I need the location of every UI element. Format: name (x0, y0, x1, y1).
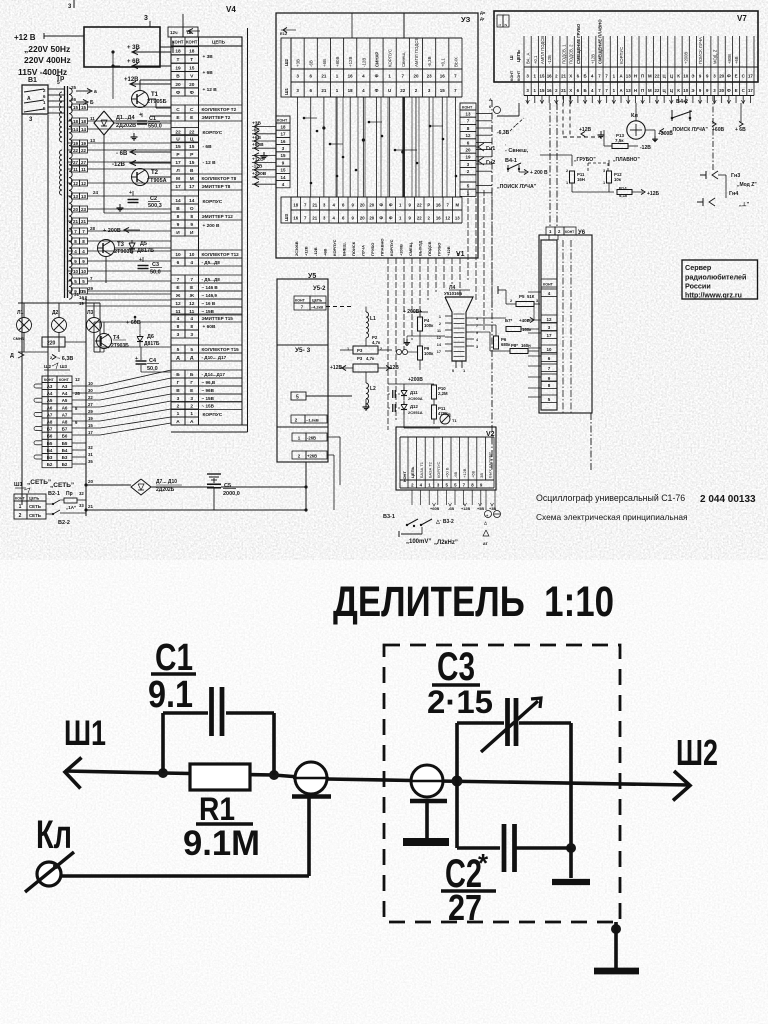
svg-text:ПОИСК ЛУЧА: ПОИСК ЛУЧА (698, 37, 703, 64)
svg-text:КОНТ: КОНТ (15, 497, 26, 501)
svg-text:Т2: Т2 (151, 170, 159, 176)
svg-text:21: 21 (321, 88, 327, 93)
svg-text:А: А (176, 419, 180, 425)
svg-text:Т: Т (190, 57, 193, 63)
svg-text:-6В: -6В (453, 471, 458, 478)
svg-text:Е: Е (735, 74, 738, 79)
svg-text:КОЛЛЕКТОР Т2: КОЛЛЕКТОР Т2 (202, 107, 237, 112)
svg-text:~4,2кВ: ~4,2кВ (311, 306, 323, 310)
svg-text:Н: Н (634, 88, 637, 93)
svg-text:+3В: +3В (296, 59, 301, 67)
svg-text:КОНТ: КОНТ (59, 378, 70, 382)
svg-text:КОНТ: КОНТ (44, 378, 55, 382)
svg-text:-26В: -26В (307, 436, 316, 441)
svg-text:СИНХР: СИНХР (375, 52, 380, 67)
svg-text:Ш1: Ш1 (64, 714, 106, 753)
svg-text:17: 17 (546, 333, 552, 338)
svg-text:СМЕЩЕНИЕ ГРУБО: СМЕЩЕНИЕ ГРУБО (576, 23, 581, 64)
svg-text:16: 16 (440, 74, 446, 79)
svg-text:△ˑ В3-2: △ˑ В3-2 (435, 519, 454, 525)
svg-text:+200В: +200В (398, 244, 403, 256)
svg-text:21: 21 (81, 219, 87, 224)
svg-text:8: 8 (190, 214, 193, 220)
svg-text:V1: V1 (456, 251, 465, 258)
svg-text:Ф: Ф (727, 74, 731, 79)
svg-text:КОНТ: КОНТ (462, 106, 473, 110)
svg-text:-12В: -12В (547, 55, 552, 64)
svg-text:16Н: 16Н (577, 177, 585, 182)
svg-text:У5: У5 (308, 273, 316, 280)
svg-text:Л1: Л1 (17, 310, 24, 316)
svg-text:А: А (27, 96, 31, 102)
svg-text:ЭМИТТЕР Т12: ЭМИТТЕР Т12 (202, 214, 234, 219)
svg-text:+12В: +12В (330, 365, 342, 371)
svg-text:А4: А4 (62, 391, 68, 396)
svg-text:СМЕЩ,: СМЕЩ, (408, 242, 413, 256)
svg-text:Д: Д (176, 355, 180, 361)
svg-text:КОРПУС: КОРПУС (203, 130, 223, 136)
svg-text:ГТ905А: ГТ905А (147, 178, 167, 184)
svg-text:13: 13 (90, 138, 96, 143)
svg-text:Д817Б: Д817Б (144, 341, 160, 347)
svg-text:К: К (677, 74, 680, 79)
svg-text:ДЕЛИТЕЛЬ 1:10: ДЕЛИТЕЛЬ 1:10 (333, 578, 614, 626)
svg-text:16: 16 (547, 88, 552, 93)
svg-text:~ 6,3В: ~ 6,3В (57, 356, 73, 362)
svg-text:В: В (190, 168, 194, 174)
svg-text:4,7к: 4,7к (366, 356, 375, 361)
svg-text:Б2: Б2 (62, 462, 68, 467)
svg-text:ЗВ: ЗВ (479, 473, 484, 478)
svg-text:Гн4: Гн4 (729, 191, 739, 197)
svg-text:16: 16 (547, 74, 552, 79)
svg-text:В4...А: В4...А (526, 52, 531, 64)
svg-text:+200В: +200В (684, 52, 689, 64)
svg-text:+ 60В: + 60В (126, 320, 141, 326)
svg-text:12: 12 (75, 377, 80, 382)
svg-text:13: 13 (455, 216, 460, 221)
svg-text:- Д5...Д8: - Д5...Д8 (202, 260, 221, 265)
svg-text:~ 146,9: ~ 146,9 (202, 293, 218, 298)
svg-text:18: 18 (293, 203, 298, 208)
svg-text:5: 5 (476, 317, 478, 321)
svg-text:1: 1 (190, 411, 193, 417)
svg-text:А6: А6 (47, 405, 53, 410)
svg-text:18: 18 (73, 119, 79, 124)
svg-text:Б: Б (90, 100, 94, 106)
svg-text:УЗ: УЗ (461, 15, 471, 24)
svg-text:В: В (176, 206, 180, 212)
svg-text:Б7*: Б7* (505, 318, 512, 323)
svg-text:+12В: +12В (461, 507, 470, 511)
svg-text:А7: А7 (47, 412, 53, 417)
svg-text:БАЗА Т2: БАЗА Т2 (427, 461, 432, 478)
svg-text:10: 10 (683, 88, 688, 93)
svg-text:Т3: Т3 (117, 242, 125, 248)
svg-text:Д6: Д6 (147, 334, 154, 340)
svg-text:Ф: Ф (375, 74, 379, 79)
svg-text:Пр: Пр (66, 491, 73, 497)
svg-text:А5: А5 (47, 398, 53, 403)
svg-text:2Д202В: 2Д202В (116, 123, 136, 129)
svg-text:+: + (139, 112, 142, 118)
svg-text:Ш3: Ш3 (60, 364, 68, 369)
svg-text:ЦЕПЬ: ЦЕПЬ (410, 467, 415, 478)
svg-text:7: 7 (476, 324, 478, 328)
svg-text:32: 32 (88, 445, 93, 450)
svg-text:ЭМИТТЕР Т2: ЭМИТТЕР Т2 (202, 115, 231, 120)
svg-text:27: 27 (73, 160, 79, 165)
svg-text:+80В: +80В (335, 57, 340, 67)
svg-text:+ 6В: + 6В (203, 70, 214, 76)
svg-text:10: 10 (81, 269, 87, 274)
svg-text:+ 12 В: + 12 В (203, 87, 218, 93)
svg-text:Осциллограф универсальный С1: Осциллограф универсальный С1-76 (536, 493, 685, 503)
svg-text:ЦЕПЬ: ЦЕПЬ (516, 50, 521, 62)
svg-text:20: 20 (369, 203, 374, 208)
svg-text:10: 10 (546, 347, 552, 352)
svg-text:„⊥”: „⊥” (739, 201, 750, 208)
svg-text:21: 21 (561, 74, 566, 79)
svg-text:А5: А5 (62, 398, 68, 403)
svg-text:СЕТЬ: СЕТЬ (29, 513, 41, 518)
svg-text:А3: А3 (62, 384, 68, 389)
svg-text:Ф: Ф (389, 203, 393, 208)
svg-text:СМЕЩЕНИЕ ПЛАВНО: СМЕЩЕНИЕ ПЛАВНО (597, 19, 602, 64)
svg-text:15: 15 (189, 144, 195, 150)
svg-text:11: 11 (437, 329, 441, 333)
svg-text:+ 200 В: + 200 В (203, 223, 220, 229)
svg-text:Д12: Д12 (410, 404, 418, 409)
svg-text:+ 3В: + 3В (203, 54, 214, 60)
svg-text:ПОДСВ: ПОДСВ (427, 241, 432, 256)
svg-text:~ 15В: ~ 15В (202, 309, 215, 314)
svg-text:Ф: Ф (190, 90, 194, 96)
svg-text:КОНТ: КОНТ (543, 283, 554, 287)
svg-text:33: 33 (79, 503, 84, 508)
svg-text:-12В: -12В (640, 145, 651, 151)
svg-text:1: 1 (498, 24, 502, 26)
svg-text:15: 15 (73, 105, 79, 110)
svg-text:2С306В: 2С306В (294, 241, 299, 256)
svg-text:ПОИСК: ПОИСК (351, 241, 356, 256)
svg-text:О: О (190, 206, 194, 212)
svg-text:-12В: -12В (313, 247, 318, 256)
svg-text:С5: С5 (224, 483, 231, 489)
svg-text:В4-2: В4-2 (676, 99, 688, 105)
svg-text:19: 19 (79, 301, 84, 306)
svg-text:8: 8 (190, 324, 193, 330)
svg-text:+200В: +200В (252, 171, 267, 177)
svg-text:2С951А: 2С951А (408, 410, 423, 415)
svg-text:-12В: -12В (361, 58, 366, 67)
svg-text:13: 13 (626, 74, 631, 79)
svg-text:Ф: Ф (176, 90, 180, 96)
svg-text:11: 11 (81, 167, 86, 172)
svg-text:19: 19 (175, 65, 181, 71)
svg-text:22: 22 (417, 216, 422, 221)
svg-text:+5В: +5В (477, 507, 484, 511)
svg-text:17: 17 (175, 184, 181, 190)
svg-text:Р: Р (427, 203, 430, 208)
svg-text:КОНТ: КОНТ (186, 40, 198, 45)
svg-text:18: 18 (348, 88, 354, 93)
svg-text:КОРПУС: КОРПУС (203, 199, 223, 205)
svg-text:+12Б: +12Б (647, 191, 659, 197)
svg-text:17: 17 (748, 74, 753, 79)
svg-text:Свнеш,: Свнеш, (401, 52, 406, 67)
svg-text:-6В: -6В (309, 60, 314, 67)
svg-text:С: С (190, 107, 194, 113)
svg-text:ВНЕШ,: ВНЕШ, (341, 242, 346, 256)
svg-text:а: а (94, 89, 97, 95)
svg-text:+6В: +6В (470, 470, 475, 478)
svg-text:30: 30 (88, 388, 93, 393)
svg-text:+26В: +26В (307, 454, 317, 459)
svg-text:6: 6 (177, 260, 180, 266)
svg-text:АМПЛ ПОДСВ: АМПЛ ПОДСВ (540, 36, 545, 64)
svg-text:Б5: Б5 (62, 441, 68, 446)
svg-text:Гн3: Гн3 (731, 173, 740, 179)
svg-text:Ш2: Ш2 (676, 732, 718, 773)
svg-text:-12В: -12В (252, 164, 263, 170)
svg-text:М: М (648, 74, 652, 79)
svg-text:7: 7 (190, 277, 193, 283)
svg-text:+ 3В: + 3В (127, 45, 141, 51)
svg-text:+0,1: +0,1 (440, 58, 445, 67)
svg-text:В: В (176, 74, 180, 80)
svg-text:20: 20 (175, 82, 181, 88)
svg-text:11: 11 (90, 116, 95, 121)
svg-text:А3: А3 (47, 384, 53, 389)
svg-text:Б: Б (584, 88, 587, 93)
svg-text:ат: ат (483, 541, 489, 546)
svg-text:„СЕТЬ”: „СЕТЬ” (27, 479, 51, 486)
svg-text:М: М (455, 203, 459, 208)
svg-text:Л3: Л3 (87, 310, 94, 316)
svg-text:R1: R1 (199, 791, 235, 827)
svg-text:Т: Т (177, 57, 180, 63)
svg-text:2,2М: 2,2М (438, 391, 448, 396)
svg-text:10: 10 (175, 252, 181, 258)
svg-text:+: + (139, 257, 142, 263)
svg-text:20: 20 (719, 88, 724, 93)
svg-text:М: М (176, 176, 180, 182)
svg-text:Т1: Т1 (452, 418, 457, 423)
svg-text:160к: 160к (522, 327, 532, 332)
svg-text:19: 19 (88, 416, 93, 421)
svg-text:+12В: +12В (124, 77, 139, 83)
svg-text:Б3: Б3 (47, 455, 53, 460)
svg-text:2·15: 2·15 (427, 684, 493, 720)
svg-text:28: 28 (90, 226, 96, 231)
svg-text:„1А”: „1А” (66, 505, 76, 510)
svg-text:220: 220 (47, 341, 56, 347)
svg-text:+80В: +80В (727, 54, 732, 64)
svg-text:17: 17 (88, 430, 93, 435)
svg-text:С1: С1 (149, 116, 156, 122)
svg-text:13: 13 (73, 194, 79, 199)
svg-text:Б2: Б2 (47, 462, 53, 467)
svg-text:9: 9 (476, 331, 478, 335)
svg-text:БАЗА Т1: БАЗА Т1 (419, 461, 424, 478)
svg-text:10: 10 (683, 74, 688, 79)
svg-text:+6В: +6В (252, 135, 261, 141)
svg-text:22: 22 (81, 148, 87, 153)
svg-text:12: 12 (175, 301, 181, 307)
svg-text:У51016Б: У51016Б (444, 291, 462, 296)
svg-text:17: 17 (437, 350, 441, 354)
svg-text:В3-1: В3-1 (383, 514, 395, 520)
svg-text:ЛУЧА: ЛУЧА (360, 245, 365, 256)
svg-text:ГРУБО: ГРУБО (370, 243, 375, 256)
svg-text:С3: С3 (437, 645, 475, 689)
svg-text:Б4: Б4 (47, 448, 53, 453)
svg-text:5,1к: 5,1к (619, 193, 628, 198)
svg-text:КОНТ: КОНТ (277, 119, 288, 123)
svg-text:ВЫХ: ВЫХ (453, 57, 458, 67)
svg-text:Б6: Б6 (62, 434, 68, 439)
svg-text:В1: В1 (28, 77, 37, 84)
svg-text:12: 12 (546, 317, 552, 322)
svg-text:Ж: Ж (175, 293, 181, 299)
svg-text:Б: Б (584, 74, 587, 79)
svg-text:Ж: Ж (189, 293, 195, 299)
svg-text:35: 35 (88, 459, 93, 464)
svg-text:„ПЛАВНО”: „ПЛАВНО” (613, 157, 640, 163)
svg-text:Ш: Ш (509, 55, 514, 60)
svg-text:Д: Д (190, 355, 194, 361)
svg-text:В4-1: В4-1 (505, 158, 517, 164)
svg-text:Р14: Р14 (619, 186, 627, 191)
svg-text:- Д10... Д17: - Д10... Д17 (202, 355, 227, 360)
svg-text:ГРУБО: ГРУБО (436, 243, 441, 256)
svg-text:12: 12 (437, 336, 441, 340)
svg-text:23: 23 (81, 207, 87, 212)
svg-text:4,7к: 4,7к (372, 340, 381, 345)
svg-text:+3В: +3В (252, 121, 261, 127)
svg-text:550,0: 550,0 (148, 124, 162, 130)
svg-text:27: 27 (79, 289, 84, 294)
svg-text:22: 22 (417, 203, 422, 208)
svg-text:Гн1: Гн1 (486, 146, 495, 152)
svg-text:+: + (135, 356, 138, 362)
svg-text:„ПОИСК ЛУЧА”: „ПОИСК ЛУЧА” (497, 184, 537, 190)
svg-text:25: 25 (71, 85, 77, 90)
svg-text:27: 27 (88, 402, 93, 407)
svg-text:ЦЕПЬ: ЦЕПЬ (29, 497, 40, 501)
svg-text:В2-2: В2-2 (58, 520, 70, 526)
svg-text:+12В: +12В (303, 246, 308, 256)
svg-text:Д: Д (10, 353, 14, 359)
svg-text:Б6: Б6 (47, 434, 53, 439)
svg-text:2: 2 (566, 169, 568, 173)
svg-text:16: 16 (280, 139, 286, 144)
svg-text:20: 20 (360, 216, 365, 221)
svg-text:- Д5...Д8: - Д5...Д8 (202, 277, 221, 282)
svg-text:Сервер: Сервер (685, 263, 712, 272)
svg-text:А8: А8 (62, 420, 68, 425)
svg-text:-6В: -6В (448, 507, 454, 511)
svg-text:~ 15В: ~ 15В (202, 396, 215, 401)
svg-text:+12В: +12В (462, 468, 467, 478)
svg-text:8: 8 (177, 324, 180, 330)
svg-text:КОЛЛЕКТОР Т12: КОЛЛЕКТОР Т12 (202, 252, 240, 257)
svg-text:Б7: Б7 (47, 427, 53, 432)
svg-text:С2: С2 (150, 196, 157, 202)
svg-text:„Л2кНz”: „Л2кНz” (434, 540, 458, 546)
svg-text:3: 3 (190, 332, 193, 338)
svg-text:15: 15 (540, 74, 545, 79)
svg-text:12: 12 (465, 133, 471, 138)
svg-text:~ 15В: ~ 15В (202, 404, 215, 409)
svg-text:Г: Г (177, 380, 180, 386)
svg-text:„100mV”: „100mV” (406, 539, 431, 545)
svg-text:12: 12 (189, 301, 195, 307)
svg-text:СМН6: СМН6 (13, 337, 24, 341)
svg-text:2С900А: 2С900А (408, 396, 423, 401)
svg-text:22: 22 (400, 88, 406, 93)
svg-text:+ 6В: + 6В (735, 127, 746, 133)
svg-text:М: М (190, 176, 194, 182)
svg-text:14: 14 (79, 295, 84, 300)
svg-text:КОНТ: КОНТ (172, 40, 184, 45)
svg-text:680к: 680к (501, 342, 511, 347)
svg-text:А8: А8 (47, 420, 53, 425)
svg-text:5: 5 (296, 395, 299, 401)
svg-text:19: 19 (81, 141, 87, 146)
svg-text:Д1...Д4: Д1...Д4 (116, 115, 135, 121)
svg-text:С3: С3 (152, 262, 159, 268)
svg-text:Ш2: Ш2 (44, 364, 52, 369)
svg-text:А: А (190, 419, 194, 425)
svg-text:-12В: -12В (112, 162, 126, 168)
svg-text:15: 15 (280, 168, 286, 173)
svg-text:500,3: 500,3 (148, 203, 162, 209)
svg-text:20: 20 (189, 82, 195, 88)
svg-text:Гн2: Гн2 (486, 160, 495, 166)
svg-text:Б5: Б5 (47, 441, 53, 446)
svg-text:17: 17 (748, 88, 753, 93)
svg-text:Д11: Д11 (410, 390, 418, 395)
svg-text:12: 12 (445, 216, 450, 221)
svg-text:27: 27 (81, 160, 87, 165)
svg-text:+12 В: +12 В (14, 33, 36, 42)
svg-text:3: 3 (536, 299, 538, 303)
svg-text:К: К (677, 88, 680, 93)
svg-text:СЕТЬ: СЕТЬ (29, 504, 41, 509)
svg-text:15: 15 (81, 105, 87, 110)
svg-text:2: 2 (439, 322, 441, 326)
svg-text:+ 60В: + 60В (203, 324, 216, 330)
svg-text:L1: L1 (370, 316, 376, 322)
svg-text:19: 19 (465, 155, 471, 160)
svg-text:С4: С4 (149, 358, 157, 364)
svg-text:„Мод Z”: „Мод Z” (737, 182, 757, 188)
svg-text:18: 18 (280, 124, 286, 129)
svg-text:3: 3 (603, 169, 605, 173)
svg-text:14: 14 (189, 198, 195, 204)
svg-text:4: 4 (190, 260, 193, 266)
svg-text:Б4: Б4 (62, 448, 68, 453)
svg-text:- 6В: - 6В (116, 151, 128, 157)
svg-text:7: 7 (177, 277, 180, 283)
svg-text:А6: А6 (62, 405, 68, 410)
svg-text:15: 15 (189, 65, 195, 71)
svg-text:„СЕТЬ”: „СЕТЬ” (50, 482, 74, 489)
svg-text:27: 27 (448, 887, 482, 928)
svg-text:16: 16 (436, 203, 441, 208)
